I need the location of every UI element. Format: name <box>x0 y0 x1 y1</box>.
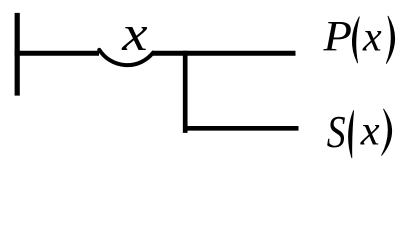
label ( of S(x) <box>349 111 354 158</box>
svg-text:P: P <box>322 12 352 60</box>
terminal bar (left vertical stroke) <box>15 13 20 96</box>
label ) of P(x) <box>386 16 394 63</box>
svg-text:x: x <box>360 107 380 154</box>
svg-text:x: x <box>362 15 382 61</box>
label ( of P(x) <box>352 17 359 63</box>
wire (lower horizontal segment to S(x)) <box>183 126 299 131</box>
wire (branch vertical segment at junction) <box>183 51 188 133</box>
wire (left horizontal segment from bar to arc) <box>15 51 99 56</box>
label ) of S(x) <box>382 109 392 155</box>
arc hop <box>99 50 153 65</box>
wire (right horizontal segment from arc through junction to P(x)) <box>152 51 296 56</box>
svg-text:x: x <box>121 5 148 61</box>
svg-text:S: S <box>327 107 346 157</box>
